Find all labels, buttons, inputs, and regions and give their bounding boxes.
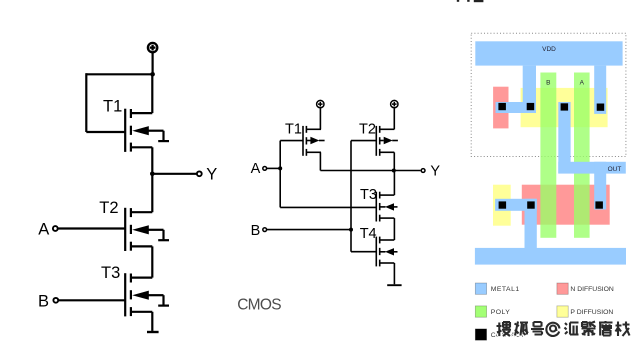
svg-text:T3: T3 (101, 264, 120, 282)
legend swatch N DIFFUSION (557, 283, 568, 294)
layout: metal OUT horizontal (558, 162, 626, 174)
svg-text:T2: T2 (359, 122, 376, 138)
layout: n-well dotted boundary (471, 33, 626, 156)
svg-text:B: B (251, 223, 261, 239)
svg-text:T1: T1 (103, 97, 122, 115)
layout: P diffusion (PMOS pair) (521, 88, 608, 127)
svg-text:N DIFFUSION: N DIFFUSION (570, 286, 614, 293)
wire: feedback loop left vertical (85, 73, 87, 132)
wire: to T2 gate (351, 140, 376, 142)
layout: contact 6 (527, 201, 535, 208)
svg-text:B: B (546, 79, 550, 86)
transistor T3 (376, 192, 397, 222)
transistor T2 (125, 208, 169, 251)
ground (147, 331, 159, 333)
terminal B (53, 298, 58, 303)
node Y junction dot (150, 172, 155, 177)
layout: P diffusion substrate tap (bottom left) (493, 185, 511, 226)
clipped heading text at top edge (457, 0, 484, 2)
terminal A (53, 226, 58, 231)
svg-text:Y: Y (206, 166, 217, 184)
wire: T1 source to Y node (151, 147, 153, 174)
legend swatch POLY (475, 306, 486, 317)
legend swatch METAL1 (475, 283, 486, 294)
svg-text:A: A (38, 221, 49, 239)
wire: B junction vertical (350, 141, 352, 252)
watermark 搜狐号@汇聚魔杖 (drawn strokes) (497, 321, 630, 336)
layout: metal strap substrate tap to GND (495, 199, 537, 211)
layout: contact 5 (499, 201, 507, 208)
wire: A junction up to T1 gate level (279, 141, 281, 208)
wire: supply to T1 drain (319, 108, 321, 129)
svg-text:P DIFFUSION: P DIFFUSION (570, 309, 613, 316)
svg-text:T2: T2 (99, 199, 118, 217)
transistor T1 (303, 126, 325, 156)
legend swatch P DIFFUSION (557, 306, 568, 317)
layout: metal drop to GND rail (525, 199, 537, 249)
node: supply junction dot (150, 72, 155, 77)
node: B junction (349, 228, 353, 232)
CMOS circuit: supply terminal of T2 (391, 100, 398, 107)
transistor T1 (125, 109, 169, 152)
terminal Y (CMOS) (421, 169, 425, 173)
wire: output rail down to T3 drain (393, 171, 395, 196)
wire: T1 gate lead (86, 131, 125, 133)
wire: T3 source to ground (151, 312, 153, 331)
wire: Y node down to T2 drain (151, 174, 153, 212)
wire: A input (267, 167, 281, 169)
svg-text:Y: Y (430, 163, 440, 179)
svg-text:POLY: POLY (491, 309, 511, 316)
layout: contact 7 (595, 201, 603, 208)
wire: to T1 gate (280, 140, 303, 142)
svg-text:B: B (38, 293, 49, 311)
wire: T4 source to ground (393, 263, 395, 284)
layout: metal drop VDD to source contact (523, 66, 536, 113)
wire: A input to T2 gate (58, 227, 126, 229)
svg-text:OUT: OUT (608, 166, 622, 173)
layout: poly gate B (540, 73, 556, 238)
svg-text:T4: T4 (360, 226, 377, 242)
layout: metal OUT vertical from PMOS drain (558, 102, 570, 173)
transistor T2 (376, 126, 398, 156)
layout: N diffusion well tap (top left) (493, 87, 508, 129)
layout: metal OUT drop to NMOS drain (594, 162, 606, 210)
NMOS circuit: power supply terminal (148, 43, 157, 52)
wire: T1 source down to output rail (319, 152, 321, 170)
wire: T1 drain vertical (151, 74, 153, 113)
svg-text:METAL1: METAL1 (491, 286, 520, 293)
svg-text:CMOS: CMOS (237, 296, 281, 313)
svg-text:T3: T3 (360, 187, 377, 203)
node: A junction (278, 166, 282, 170)
layout: contact 2 (527, 103, 535, 110)
layout: GND metal rail (475, 248, 626, 265)
ground (CMOS) (387, 284, 401, 286)
layout: VDD metal rail (475, 41, 622, 65)
svg-text:T1: T1 (285, 122, 302, 138)
layout: contact 1 (498, 103, 506, 110)
layout: contact 4 (597, 104, 605, 111)
CMOS circuit: supply terminal of T1 (317, 100, 324, 107)
svg-text:A: A (580, 79, 585, 86)
wire: to T3 gate (280, 206, 376, 208)
layout: metal drop VDD to right source contact (594, 66, 606, 114)
wire: B input (267, 229, 351, 231)
terminal A (CMOS) (263, 167, 267, 171)
wire: to T4 gate (351, 251, 376, 253)
wire: output rail to Y (320, 170, 420, 172)
terminal B (CMOS) (263, 228, 267, 232)
wire: T3 source to T4 drain (393, 218, 395, 240)
transistor T3 (125, 273, 169, 316)
wire: feedback loop top (86, 73, 152, 75)
wire: B input to T3 gate (58, 299, 125, 301)
legend swatch CONTACT (475, 329, 486, 340)
wire: T2 source down to output rail (393, 152, 395, 170)
layout: contact 3 (561, 103, 569, 110)
wire: T2 source to T3 drain (151, 246, 153, 277)
wire: supply to junction (152, 53, 154, 75)
svg-text:A: A (251, 161, 261, 177)
terminal Y (197, 171, 202, 176)
wire: supply to T2 drain (393, 108, 395, 129)
wire: Y output (152, 173, 197, 175)
layout: poly gate A (574, 73, 590, 238)
layout: metal strap well tap (496, 102, 537, 113)
transistor T4 (376, 237, 397, 267)
node: output junction (392, 169, 396, 173)
layout: N diffusion (NMOS pair) (522, 185, 610, 225)
svg-text:VDD: VDD (542, 46, 556, 53)
